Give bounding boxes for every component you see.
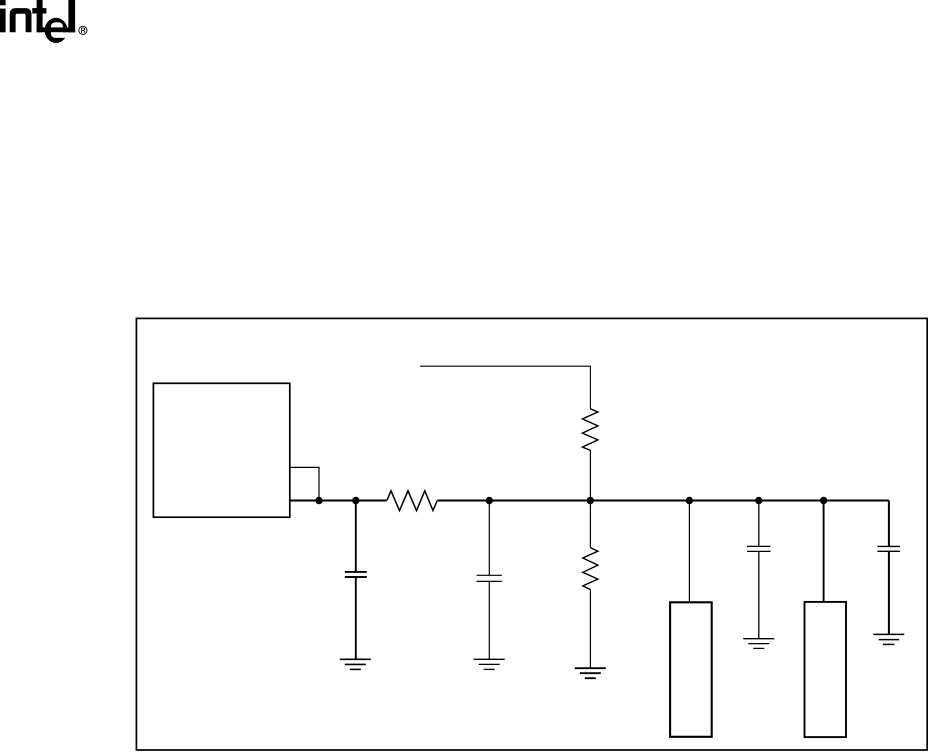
resistor R2 (pull-up, vertical): [582, 409, 598, 451]
logo letter l: [68, 0, 75, 32]
capacitor C3: [747, 546, 771, 551]
node A junction dot: [315, 497, 322, 504]
node G junction dot: [820, 497, 827, 504]
wire: upper pin stub from U1 to node A: [290, 467, 319, 500]
wire: C1 to ground: [355, 577, 357, 659]
registered trademark symbol: [79, 26, 87, 34]
component X1 (tall rectangle): [670, 602, 712, 737]
ground (under C3): [743, 639, 774, 649]
wire: C4 to ground: [888, 551, 890, 634]
node C junction dot: [486, 497, 493, 504]
ground (under C4): [873, 634, 904, 644]
resistor R3 (pull-down, vertical): [583, 548, 598, 590]
logo e aperture (white): [60, 32, 68, 38]
capacitor C2: [477, 575, 502, 581]
capacitor C4: [877, 546, 900, 551]
wire: R2 bottom to node D: [589, 450, 591, 500]
wire: node C down to capacitor C2: [488, 501, 490, 576]
wire: node G down to component X2: [823, 501, 825, 602]
wire: bus corner down to capacitor C4: [888, 501, 890, 547]
wire: supply stub to pull-up resistor R2: [420, 366, 590, 409]
intel logo: [0, 0, 68, 43]
capacitor C1: [345, 572, 367, 577]
ground (under C1): [340, 659, 371, 669]
ground (under R3): [575, 668, 606, 678]
figure border frame: [136, 318, 927, 750]
node B junction dot: [352, 497, 359, 504]
wire: node D down to resistor R3: [589, 501, 591, 548]
IC U1 box: [153, 383, 289, 517]
wire: node F down to capacitor C3: [758, 501, 760, 547]
logo baseline bar: [37, 27, 76, 32]
wire: C2 to ground: [488, 581, 490, 659]
wire: R3 to ground: [589, 590, 591, 669]
component X2 (tall rectangle): [805, 602, 847, 737]
node E junction dot: [686, 497, 693, 504]
wire: node E down to component X1: [688, 501, 690, 603]
wire: main bus from U1 pin to right corner: [290, 500, 387, 502]
node F junction dot: [755, 497, 762, 504]
node D junction dot: [587, 497, 594, 504]
wire: node B down to capacitor C1: [355, 501, 357, 572]
resistor R1 (series, horizontal): [387, 491, 437, 511]
ground (under C2): [474, 659, 505, 669]
wire: C3 to ground: [758, 551, 760, 638]
wire: bus segment right of resistor R1: [437, 500, 889, 502]
